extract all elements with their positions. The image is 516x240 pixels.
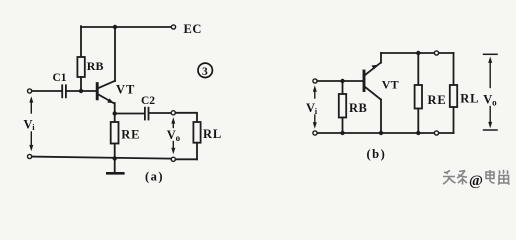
terminal: output top terminal circle (a) — [171, 111, 175, 115]
transistor VT (circuit a, NPN) — [97, 81, 115, 103]
resistor RB (circuit a) — [77, 57, 84, 77]
wire: emitter node to C2 — [115, 113, 144, 115]
watermark: 头条@电巢 (gray embossed) — [443, 170, 510, 189]
node: emitter junction dot — [113, 111, 117, 115]
svg-text:C2: C2 — [141, 95, 155, 107]
terminal: bottom output terminal circle (b) — [434, 131, 438, 135]
capacitor C2 — [145, 108, 149, 120]
label RE (a) — [121, 128, 140, 142]
arrow: input voltage Vi (a) — [29, 96, 33, 151]
svg-text:RE: RE — [121, 128, 140, 142]
wire: RE bottom lead to rail — [114, 144, 116, 159]
svg-text:RB: RB — [87, 59, 104, 73]
label RE (b) — [428, 93, 447, 107]
label VT (b) — [382, 77, 399, 91]
node: RB top junction dot (b) — [340, 79, 344, 83]
wire: C1 to base — [67, 90, 96, 92]
resistor RB (circuit b) — [339, 81, 346, 133]
svg-text:o: o — [176, 133, 181, 143]
svg-text:(a): (a) — [145, 170, 164, 184]
label Vo (a) — [167, 128, 181, 143]
svg-text:RL: RL — [203, 127, 222, 141]
svg-text:o: o — [492, 98, 497, 108]
arrow: input voltage Vi (b) — [313, 85, 317, 128]
label RB (a) — [87, 59, 104, 73]
wire: input lead to C1 — [32, 90, 61, 92]
terminal: input top terminal circle (b) — [313, 79, 317, 83]
resistor RL (circuit b) — [450, 53, 457, 133]
node: RE bottom junction dot (b) — [416, 131, 420, 135]
wire: C2 to output terminal — [149, 112, 171, 114]
node: RB bottom junction dot (b) — [340, 131, 344, 135]
svg-text:V: V — [306, 101, 315, 115]
svg-text:@: @ — [469, 173, 483, 189]
node: collector junction on top rail — [113, 25, 117, 29]
node: RE top junction dot (b) — [416, 51, 420, 55]
terminal: input terminal circle (a) — [28, 89, 32, 93]
wire: RE top lead from emitter node — [114, 114, 116, 123]
wire: circuit (b) top rail — [381, 52, 454, 54]
wire: input wire to base (b) — [317, 80, 363, 82]
label (a) caption — [145, 170, 164, 184]
wire: RB bottom lead to base node — [80, 77, 82, 91]
arrow: output voltage Vo (a) — [171, 117, 175, 154]
node: base junction dot — [79, 89, 83, 93]
wire: emitter lead down to node — [114, 103, 116, 114]
svg-text:RE: RE — [428, 93, 447, 107]
svg-text:VT: VT — [116, 83, 135, 97]
label C2 — [141, 95, 155, 107]
capacitor C1 — [62, 85, 66, 97]
label RL (a) — [203, 127, 222, 141]
arrow: output voltage Vo (b) with reference bars — [484, 54, 498, 130]
svg-text:V: V — [483, 93, 492, 107]
wire: RB top lead from rail — [80, 26, 82, 57]
wire: output terminal to RL top — [175, 113, 197, 122]
terminal: input bottom terminal circle (b) — [313, 131, 317, 135]
svg-text:V: V — [167, 128, 176, 142]
wire: collector lead up to rail — [114, 27, 116, 81]
ground — [107, 158, 123, 173]
label RB (b) — [349, 101, 367, 115]
label Vi (b) — [306, 101, 318, 116]
wire: RL bottom lead to ground rail — [196, 143, 198, 160]
terminal: top output terminal circle (b) — [434, 51, 438, 55]
label C1 — [53, 72, 67, 84]
svg-text:VT: VT — [382, 77, 399, 91]
node: RE-rail junction dot — [113, 156, 117, 160]
svg-text:V: V — [24, 117, 33, 131]
label RL (b) — [460, 92, 479, 106]
label EC — [184, 22, 203, 36]
node: collector-rail junction dot (b) — [379, 131, 383, 135]
symbol: circled 3 — [198, 63, 212, 78]
svg-text:C1: C1 — [53, 72, 67, 84]
svg-text:RB: RB — [349, 101, 367, 115]
wire: circuit (a) bottom rail main — [32, 157, 171, 159]
svg-text:EC: EC — [184, 22, 203, 36]
wire: circuit (a) bottom rail right part — [175, 158, 197, 160]
label Vo (b) — [483, 93, 497, 108]
label VT (a) — [116, 83, 135, 97]
terminal: input bottom terminal circle (a) — [28, 154, 32, 158]
resistor RE (circuit b) — [415, 53, 422, 133]
transistor VT (circuit b, NPN emitter up) — [364, 63, 381, 100]
terminal: output bottom terminal circle (a) — [171, 157, 175, 161]
label (b) caption — [367, 147, 387, 161]
wire: circuit (a) top supply rail — [81, 26, 172, 28]
svg-text:RL: RL — [460, 92, 479, 106]
svg-text:(b): (b) — [367, 147, 387, 161]
resistor RL (circuit a) — [193, 122, 200, 143]
svg-text:3: 3 — [202, 66, 208, 78]
label Vi (a) — [24, 117, 36, 132]
wire: circuit (b) bottom rail — [317, 132, 453, 134]
terminal: EC supply terminal circle — [171, 25, 175, 29]
wire: emitter lead up to top rail (b) — [380, 53, 382, 63]
resistor RE (circuit a) — [111, 122, 119, 144]
wire: collector lead down to bottom rail (b) — [380, 100, 382, 134]
